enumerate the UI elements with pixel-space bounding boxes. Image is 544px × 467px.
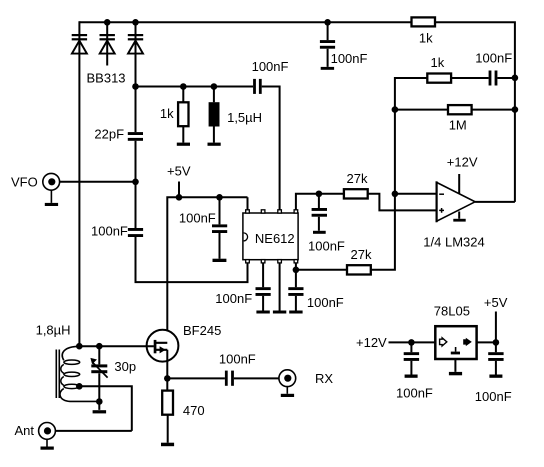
- svg-text:100nF: 100nF: [308, 239, 345, 254]
- svg-text:1/4 LM324: 1/4 LM324: [423, 235, 484, 250]
- svg-text:+12V: +12V: [447, 154, 478, 169]
- svg-text:30p: 30p: [114, 359, 136, 374]
- svg-text:100nF: 100nF: [475, 389, 512, 404]
- svg-text:100nF: 100nF: [91, 223, 128, 238]
- svg-text:1k: 1k: [431, 55, 445, 70]
- svg-text:100nF: 100nF: [219, 351, 256, 366]
- svg-text:1k: 1k: [419, 30, 433, 45]
- svg-text:BB313: BB313: [87, 71, 126, 86]
- svg-text:1k: 1k: [160, 106, 174, 121]
- svg-text:+12V: +12V: [356, 335, 387, 350]
- svg-text:100nF: 100nF: [396, 386, 433, 401]
- svg-text:+5V: +5V: [167, 163, 191, 178]
- svg-text:RX: RX: [315, 371, 333, 386]
- svg-text:78L05: 78L05: [434, 303, 470, 318]
- svg-text:1M: 1M: [449, 118, 467, 133]
- svg-text:NE612: NE612: [255, 231, 295, 246]
- svg-text:27k: 27k: [347, 171, 368, 186]
- svg-text:100nF: 100nF: [179, 210, 216, 225]
- svg-text:100nF: 100nF: [307, 295, 344, 310]
- svg-text:27k: 27k: [351, 247, 372, 262]
- svg-text:100nF: 100nF: [475, 51, 512, 66]
- svg-text:Ant: Ant: [15, 423, 35, 438]
- svg-text:1,8µH: 1,8µH: [36, 323, 71, 338]
- svg-text:100nF: 100nF: [215, 291, 252, 306]
- svg-text:470: 470: [183, 403, 205, 418]
- svg-text:100nF: 100nF: [331, 51, 368, 66]
- svg-text:+5V: +5V: [484, 295, 508, 310]
- svg-text:VFO: VFO: [11, 175, 38, 190]
- svg-text:100nF: 100nF: [252, 59, 289, 74]
- svg-text:BF245: BF245: [183, 323, 221, 338]
- svg-text:22pF: 22pF: [94, 127, 124, 142]
- svg-text:1,5µH: 1,5µH: [227, 110, 262, 125]
